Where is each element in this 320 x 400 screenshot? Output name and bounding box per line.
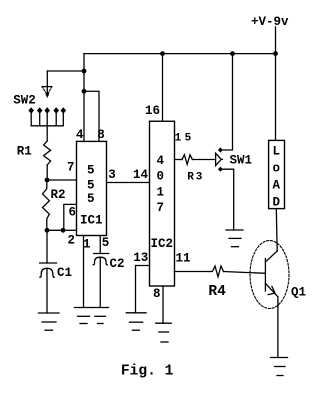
wire pin 8 branch (84, 91, 99, 141)
switch SW2 wiper arrow (42, 86, 52, 88)
wire +V supply vertical (275, 27, 277, 140)
wire IC1 pin 1 to ground (83, 236, 85, 308)
node pin2-pin6 junction (61, 228, 66, 233)
svg-text:6: 6 (69, 206, 77, 220)
svg-text:8: 8 (97, 128, 105, 142)
label LOAD letters (273, 145, 281, 210)
wire LOAD to Q1 collector (275, 209, 278, 251)
node pin4-pin8 junction (82, 89, 87, 94)
svg-text:R2: R2 (51, 188, 66, 202)
svg-text:16: 16 (145, 104, 160, 118)
wire SW2 bus to R1 (46, 126, 48, 141)
ground under SW1 (226, 230, 243, 247)
svg-text:SW1: SW1 (230, 153, 253, 167)
label 4017 (157, 154, 165, 215)
ground under pin 8 (156, 323, 171, 342)
wire IC2 pin 8 to ground (162, 286, 164, 323)
wire Q1 emitter to ground (277, 297, 279, 358)
node rail-IC2 junction (160, 51, 165, 56)
wire SW1 upper contact to rail (223, 54, 233, 150)
svg-text:D: D (273, 196, 281, 210)
svg-text:1: 1 (157, 185, 165, 199)
load LOAD box (269, 140, 285, 208)
svg-text:7: 7 (157, 201, 165, 215)
ground under pin 1 (75, 308, 93, 324)
svg-text:5: 5 (102, 236, 110, 250)
wire IC1 pin 5 (99, 236, 101, 254)
node SW1 lower contact (218, 167, 223, 172)
ground under C1 (39, 313, 60, 330)
svg-text:3: 3 (108, 168, 116, 182)
svg-text:R4: R4 (208, 284, 226, 300)
svg-text:R3: R3 (187, 172, 204, 184)
node rail-SW1 junction (230, 51, 235, 56)
resistor R1 (44, 141, 51, 165)
wire junction to pins 2/6 (47, 229, 63, 231)
wire SW1 lower contact to ground (223, 169, 234, 230)
svg-text:4: 4 (76, 128, 84, 142)
wire SW2 pole feed (47, 70, 84, 72)
svg-text:R1: R1 (17, 145, 32, 159)
svg-text:2: 2 (68, 234, 76, 248)
svg-text:SW2: SW2 (13, 93, 36, 107)
resistor R4 (210, 266, 224, 277)
wire IC2 pin 15 to R3 (175, 159, 183, 161)
svg-text:IC2: IC2 (151, 237, 174, 251)
node pin4-SW2 junction (82, 69, 87, 74)
wire pin 2 stub (63, 229, 77, 231)
node R1-R2-pin7 junction (45, 178, 50, 183)
svg-text:+V-9v: +V-9v (251, 15, 289, 29)
svg-text:14: 14 (133, 168, 149, 182)
svg-text:1: 1 (83, 238, 91, 252)
node rail-V junction (273, 51, 278, 56)
svg-text:11: 11 (176, 252, 191, 266)
label 555 (87, 164, 95, 207)
wire IC2 pin 13 to ground (136, 266, 150, 313)
switch SW2 contacts (28, 107, 66, 126)
switch SW1 wiper (216, 153, 222, 165)
svg-text:15: 15 (175, 133, 195, 145)
capacitor C2 (93, 254, 109, 308)
svg-text:IC1: IC1 (80, 214, 103, 228)
node R2-C1 junction (45, 228, 50, 233)
svg-text:5: 5 (87, 179, 95, 193)
svg-text:L: L (273, 145, 281, 159)
svg-text:4: 4 (157, 154, 165, 168)
op-amp IC1 555 box (77, 141, 107, 235)
wire rail left drop to IC1 pin 4 (83, 54, 85, 142)
svg-text:5: 5 (87, 164, 95, 178)
svg-text:A: A (273, 178, 281, 192)
svg-text:o: o (273, 161, 281, 175)
wire pin 7 (47, 179, 77, 181)
wire top power rail (84, 53, 276, 55)
ground under C2 (93, 308, 109, 324)
svg-text:Q1: Q1 (291, 285, 306, 299)
wire R3 to SW1 (192, 159, 215, 161)
ground under Q1 (271, 358, 288, 376)
resistor R3 (182, 155, 192, 165)
svg-text:C2: C2 (110, 257, 125, 271)
wire IC2 pin 16 (162, 54, 164, 122)
wire R1 to junction (46, 165, 48, 180)
svg-text:13: 13 (133, 251, 148, 265)
svg-text:8: 8 (153, 287, 161, 301)
wire pin 6 branch (64, 204, 77, 230)
wire R4 to Q1 base (224, 272, 266, 274)
wire IC1 pin 3 to IC2 pin 14 (107, 182, 150, 184)
wire IC2 pin 11 to R4 (175, 271, 211, 273)
svg-text:Fig. 1: Fig. 1 (121, 364, 174, 380)
ground under pin 13 (126, 313, 146, 330)
IC IC2 4017 box (150, 121, 175, 286)
resistor R2 (43, 180, 50, 230)
node SW1 upper contact (218, 147, 223, 152)
svg-text:5: 5 (87, 192, 95, 206)
svg-text:7: 7 (67, 161, 75, 175)
transistor Q1 (250, 241, 289, 309)
svg-text:C1: C1 (57, 266, 72, 280)
capacitor C1 (40, 230, 57, 313)
svg-text:0: 0 (157, 170, 165, 184)
